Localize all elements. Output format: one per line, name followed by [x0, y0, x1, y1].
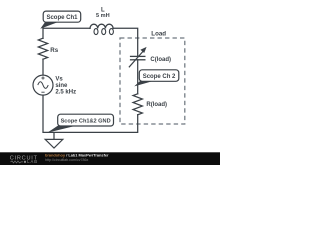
svg-text:C(load): C(load)	[150, 57, 171, 63]
svg-text:brandohoy / Lab1 MaxPwrTransfe: brandohoy / Lab1 MaxPwrTransfer	[45, 153, 109, 158]
svg-text:http://circuitlab.com/cv786x: http://circuitlab.com/cv786x	[45, 158, 89, 162]
svg-text:Load: Load	[151, 30, 166, 37]
svg-text:Rs: Rs	[50, 47, 58, 54]
svg-text:sine: sine	[55, 83, 68, 89]
svg-text:Vs: Vs	[55, 76, 63, 82]
svg-text:Scope Ch1&2 GND: Scope Ch1&2 GND	[61, 118, 111, 124]
svg-text:2.5 kHz: 2.5 kHz	[55, 89, 76, 95]
svg-text:5 mH: 5 mH	[96, 13, 110, 19]
svg-text:LAB: LAB	[27, 159, 38, 164]
svg-text:Scope Ch 2: Scope Ch 2	[143, 74, 176, 80]
svg-text:Scope Ch1: Scope Ch1	[46, 15, 78, 21]
svg-text:R(load): R(load)	[146, 102, 167, 108]
